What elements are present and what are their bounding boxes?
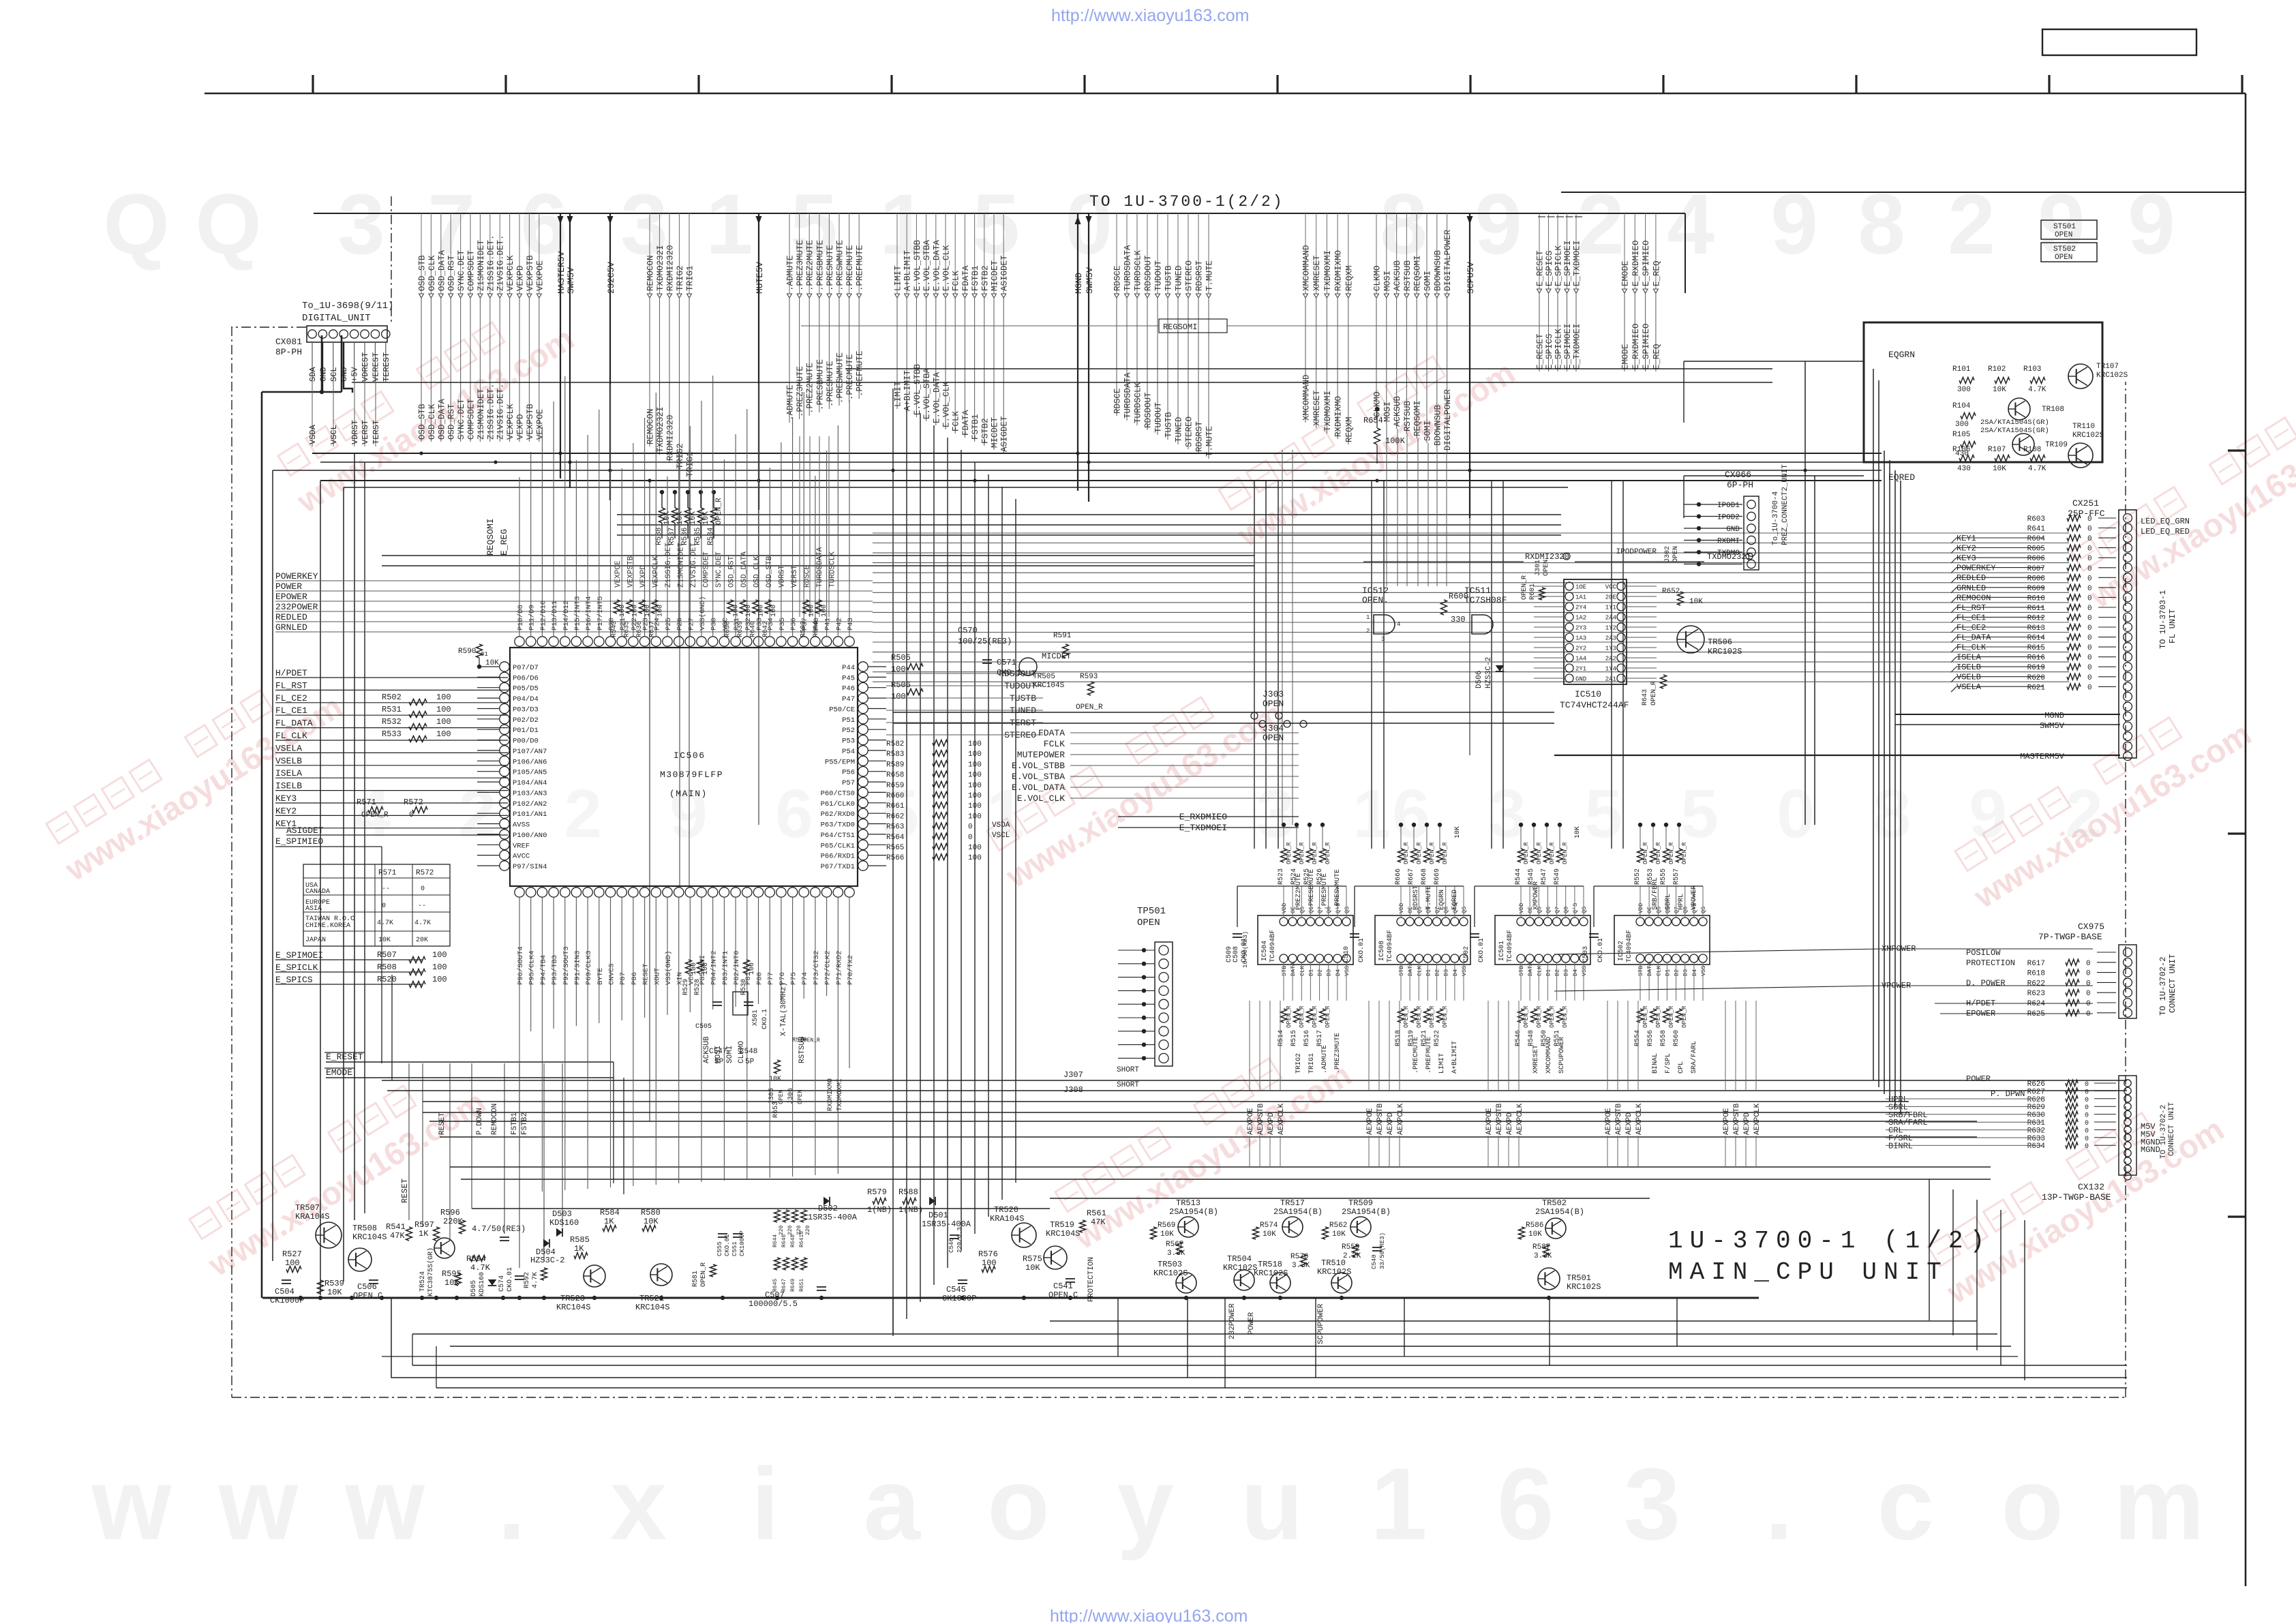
svg-text:4.7K: 4.7K	[377, 920, 393, 927]
svg-text:TR523: TR523	[560, 1294, 585, 1303]
svg-text:A+BLIMIT: A+BLIMIT	[903, 249, 913, 291]
svg-text:KRC104S: KRC104S	[635, 1303, 669, 1312]
svg-text:R614: R614	[2027, 635, 2046, 643]
svg-text:MGND: MGND	[2141, 1145, 2160, 1155]
svg-text:OPEN_R: OPEN_R	[1442, 1005, 1449, 1028]
svg-text:VSELB: VSELB	[1957, 673, 1981, 682]
svg-text:OPEN_R: OPEN_R	[1325, 842, 1331, 864]
svg-text:OPEN_R: OPEN_R	[1681, 842, 1688, 864]
svg-text:CX081: CX081	[275, 337, 302, 347]
svg-text:100: 100	[733, 605, 740, 617]
svg-text:EMODE: EMODE	[326, 1067, 352, 1078]
svg-text:Z1SMONIDET: Z1SMONIDET	[477, 388, 486, 440]
svg-text:.: .	[498, 1446, 526, 1561]
svg-text:OPEN: OPEN	[1543, 560, 1550, 576]
svg-text:AEXPCLK: AEXPCLK	[1753, 1103, 1762, 1135]
svg-text:1: 1	[1370, 1446, 1427, 1561]
svg-text:R556: R556	[1647, 1030, 1655, 1046]
svg-text:R557: R557	[1673, 868, 1680, 885]
svg-text:TUSTB: TUSTB	[1164, 265, 1174, 291]
svg-text:--: --	[382, 885, 390, 893]
svg-text:P74: P74	[801, 972, 809, 985]
svg-text:OPEN_R: OPEN_R	[1642, 1005, 1649, 1028]
svg-text:TR107: TR107	[2096, 363, 2119, 371]
svg-text:2A4: 2A4	[1605, 615, 1616, 622]
svg-text:0: 0	[2086, 1010, 2091, 1018]
svg-text:RXDMI: RXDMI	[1717, 538, 1740, 546]
svg-text:D3: D3	[1443, 969, 1450, 976]
svg-text:6P-PH: 6P-PH	[1727, 480, 1753, 490]
svg-text:OSD_RST: OSD_RST	[447, 255, 457, 291]
svg-text:VSCL: VSCL	[992, 832, 1010, 840]
svg-text:0: 0	[2087, 644, 2092, 652]
svg-text:VDD: VDD	[1398, 903, 1405, 913]
svg-text:VEXPSTB: VEXPSTB	[526, 255, 535, 291]
svg-text:VDD: VDD	[1637, 903, 1644, 913]
svg-text:X-TAL(30MHz): X-TAL(30MHz)	[780, 982, 788, 1036]
svg-text:SYNC.DET: SYNC.DET	[457, 398, 466, 440]
svg-text:.PREZ3MUTE: .PREZ3MUTE	[796, 240, 805, 291]
svg-text:KRC102S: KRC102S	[2096, 371, 2128, 380]
svg-text:C547: C547	[709, 1048, 727, 1056]
svg-text:P51: P51	[842, 716, 855, 725]
svg-text:C546: C546	[948, 1238, 955, 1253]
svg-text:JAPAN: JAPAN	[305, 937, 326, 944]
svg-text:R576: R576	[978, 1249, 998, 1259]
svg-text:RXDMIXMO: RXDMIXMO	[827, 1078, 834, 1111]
svg-text:R574: R574	[1260, 1222, 1278, 1230]
svg-text:FL_CE2: FL_CE2	[275, 693, 307, 703]
svg-text:R627: R627	[2027, 1088, 2045, 1096]
svg-text:R528: R528	[694, 979, 701, 995]
svg-text:220K: 220K	[443, 1217, 464, 1226]
svg-text:R518: R518	[1395, 1030, 1402, 1046]
svg-text:0: 0	[2085, 1089, 2089, 1096]
svg-text:POWERKEY: POWERKEY	[275, 571, 318, 581]
svg-text:VSELA: VSELA	[1957, 682, 1982, 692]
svg-text:100: 100	[691, 962, 698, 975]
svg-text:REQXM: REQXM	[1344, 416, 1354, 442]
svg-text:R550: R550	[1541, 1030, 1548, 1046]
svg-text:P86: P86	[631, 972, 639, 985]
svg-text:CKO.1: CKO.1	[761, 1009, 769, 1029]
svg-text:KEY1: KEY1	[1957, 534, 1976, 543]
svg-text:E_SPIMIEO: E_SPIMIEO	[1642, 323, 1651, 369]
svg-text:R669: R669	[1434, 868, 1441, 885]
svg-text:R632: R632	[2027, 1127, 2045, 1135]
svg-text:100: 100	[891, 665, 906, 674]
svg-text:4.7K: 4.7K	[532, 1272, 539, 1288]
svg-text:IPODPOWER: IPODPOWER	[1616, 548, 1657, 556]
svg-text:--: --	[418, 902, 426, 910]
svg-text:VEXPSTB: VEXPSTB	[627, 556, 635, 588]
svg-text:a: a	[863, 1446, 921, 1561]
svg-text:0: 0	[2086, 960, 2091, 968]
svg-text:2SA/KTA1504S(GR): 2SA/KTA1504S(GR)	[1980, 419, 2049, 427]
svg-text:OPEN: OPEN	[778, 1089, 785, 1104]
svg-text:SWM5V: SWM5V	[2040, 721, 2065, 731]
svg-text:CNVCS: CNVCS	[608, 963, 616, 985]
svg-text:VERST: VERST	[791, 565, 799, 588]
svg-text:P66/RXD1: P66/RXD1	[821, 853, 855, 861]
svg-text:1A1: 1A1	[1575, 594, 1586, 601]
svg-text:OPEN: OPEN	[2055, 231, 2072, 239]
svg-text:OPEN: OPEN	[1672, 546, 1680, 562]
svg-text:3: 3	[337, 177, 385, 272]
svg-text:R504: R504	[813, 621, 820, 637]
svg-text:EQGRN: EQGRN	[1438, 890, 1446, 910]
svg-text:IC501: IC501	[1498, 941, 1506, 961]
svg-text:OPEN_R: OPEN_R	[700, 1262, 708, 1287]
svg-text:100: 100	[968, 813, 982, 821]
svg-text:0: 0	[409, 811, 414, 819]
svg-text:TUSTB: TUSTB	[1164, 412, 1174, 438]
svg-text:C508: C508	[1233, 946, 1240, 962]
svg-text:AEXPSTB: AEXPSTB	[1257, 1103, 1265, 1135]
svg-text:0: 0	[2086, 980, 2091, 988]
svg-text:R525: R525	[1303, 868, 1311, 885]
svg-text:RDSDOUT: RDSDOUT	[1144, 392, 1153, 428]
svg-text:0: 0	[2087, 664, 2092, 672]
svg-text:CONNECT UNIT: CONNECT UNIT	[2168, 954, 2177, 1013]
svg-text:OPEN_R: OPEN_R	[1403, 1005, 1410, 1028]
svg-text:P62/RXD0: P62/RXD0	[821, 810, 855, 819]
svg-text:.PRECMUTE: .PRECMUTE	[845, 245, 855, 291]
svg-text:0: 0	[2085, 1081, 2089, 1089]
svg-text:10K: 10K	[676, 511, 684, 525]
svg-text:OPEN_R: OPEN_R	[1312, 842, 1318, 864]
svg-text:0: 0	[968, 823, 973, 832]
svg-text:RDSRST: RDSRST	[1195, 260, 1205, 291]
svg-text:TUDOUT: TUDOUT	[1154, 260, 1164, 291]
svg-text:SBRL: SBRL	[1665, 894, 1672, 910]
svg-text:GND: GND	[1575, 676, 1586, 683]
svg-text:P11/D9: P11/D9	[528, 605, 537, 631]
svg-text:D4: D4	[1572, 969, 1579, 976]
svg-text:OPEN: OPEN	[1263, 733, 1284, 743]
svg-text:QS: QS	[1700, 907, 1707, 913]
svg-text:IC506: IC506	[674, 750, 706, 761]
svg-text:FSTB2: FSTB2	[980, 265, 990, 291]
svg-text:R662: R662	[886, 813, 904, 821]
svg-text:TR518: TR518	[1258, 1260, 1282, 1269]
svg-text:P07/D7: P07/D7	[513, 664, 539, 672]
svg-text:P04/D4: P04/D4	[513, 695, 539, 703]
svg-text:OPEN.: OPEN.	[1362, 595, 1389, 605]
svg-text:FSTB1: FSTB1	[511, 1112, 519, 1135]
svg-text:J307: J307	[1063, 1070, 1083, 1080]
svg-text:4.7K: 4.7K	[414, 920, 431, 927]
svg-text:.PREFMUTE: .PREFMUTE	[856, 245, 865, 291]
svg-text:FL_RST: FL_RST	[1957, 603, 1986, 613]
svg-text:R503: R503	[800, 621, 808, 637]
svg-text:i: i	[751, 1446, 780, 1561]
svg-text:P83/INT1: P83/INT1	[721, 951, 729, 985]
svg-text:RDSRST: RDSRST	[1413, 885, 1420, 910]
svg-text:P69/CLK3: P69/CLK3	[585, 951, 593, 985]
svg-text:D1: D1	[1308, 969, 1314, 976]
svg-text:100: 100	[632, 605, 639, 617]
svg-text:1: 1	[706, 177, 753, 272]
svg-text:TR517: TR517	[1280, 1198, 1305, 1208]
svg-text:VDRST: VDRST	[779, 565, 787, 588]
svg-text:R652: R652	[1662, 588, 1680, 596]
svg-text:R636: R636	[636, 621, 644, 637]
svg-text:VEXPOE: VEXPOE	[535, 260, 545, 291]
svg-text:CKO.01: CKO.01	[1358, 938, 1365, 962]
svg-text:IC502: IC502	[1618, 941, 1625, 961]
svg-text:OPEN_R: OPEN_R	[1521, 575, 1528, 600]
svg-text:E_RXDMIEO: E_RXDMIEO	[1631, 240, 1641, 286]
svg-text:100: 100	[770, 605, 778, 617]
svg-text:0: 0	[2087, 684, 2092, 692]
svg-text:330: 330	[1451, 615, 1466, 624]
svg-text:0: 0	[421, 885, 425, 893]
svg-text:100K: 100K	[1385, 436, 1406, 446]
svg-text:R529: R529	[682, 979, 690, 995]
svg-text:TO 1U-3703-1: TO 1U-3703-1	[2158, 590, 2168, 649]
svg-text:P64/CTS1: P64/CTS1	[821, 832, 855, 840]
svg-text:ISELB: ISELB	[1957, 663, 1981, 672]
svg-text:OSD_DATA: OSD_DATA	[437, 249, 447, 291]
svg-text:E_SPICLK: E_SPICLK	[275, 962, 318, 973]
svg-text:D1: D1	[1425, 969, 1432, 976]
svg-text:R642: R642	[762, 621, 770, 637]
svg-text:MOSI: MOSI	[1383, 401, 1392, 422]
svg-text:COMPSDET: COMPSDET	[467, 398, 477, 440]
svg-text:ST501: ST501	[2053, 223, 2076, 231]
svg-text:REQSOMI: REQSOMI	[485, 518, 496, 556]
svg-text:OPEN_R: OPEN_R	[1299, 842, 1305, 864]
svg-text:C548: C548	[740, 1048, 757, 1056]
svg-text:POSILOW: POSILOW	[1966, 948, 2001, 958]
svg-text:10K: 10K	[1025, 1263, 1040, 1273]
svg-text:E_SPIMOEI: E_SPIMOEI	[1563, 240, 1573, 286]
svg-text:2Y1: 2Y1	[1575, 666, 1586, 673]
svg-text:LIMIT: LIMIT	[894, 381, 903, 407]
svg-text:R571: R571	[357, 798, 376, 807]
svg-text:P02/D2: P02/D2	[513, 716, 539, 725]
svg-text:P42: P42	[835, 618, 843, 631]
svg-text:AEXPSTB: AEXPSTB	[1615, 1103, 1623, 1135]
svg-text:P96/SOUT4: P96/SOUT4	[517, 946, 525, 985]
svg-text:P50/CE: P50/CE	[829, 706, 855, 714]
svg-text:XMRESET: XMRESET	[1312, 390, 1322, 426]
svg-text:R624: R624	[2027, 1000, 2046, 1008]
svg-text:100: 100	[436, 705, 451, 714]
svg-text:E_SPIMOEI: E_SPIMOEI	[275, 950, 323, 960]
svg-text:LIMIT: LIMIT	[894, 265, 903, 291]
svg-text:R613: R613	[2027, 624, 2045, 633]
svg-text:J301: J301	[1535, 560, 1542, 576]
svg-text:T.MUTE: T.MUTE	[1205, 426, 1215, 457]
svg-text:OPEN_R: OPEN_R	[1523, 1005, 1530, 1028]
svg-text:IC512: IC512	[1362, 586, 1389, 596]
svg-text:.PREZ3MUTE: .PREZ3MUTE	[1334, 1033, 1342, 1074]
svg-text:QS: QS	[1344, 907, 1350, 913]
svg-text:R640: R640	[750, 621, 757, 637]
svg-text:AEXPD: AEXPD	[1625, 1112, 1633, 1135]
svg-text:9: 9	[1475, 177, 1522, 272]
svg-text:MGND: MGND	[2044, 711, 2064, 721]
svg-text:OSD_DATA: OSD_DATA	[740, 551, 749, 588]
svg-text:STEREO: STEREO	[1185, 260, 1194, 291]
svg-text:.PREFMUTE: .PREFMUTE	[856, 350, 865, 397]
svg-text:220: 220	[787, 1225, 794, 1235]
svg-text:AEXPSTB: AEXPSTB	[1733, 1103, 1741, 1135]
svg-text:OPEN_R: OPEN_R	[1642, 842, 1649, 864]
svg-text:OSD_STB: OSD_STB	[418, 255, 427, 291]
svg-text:OPEN: OPEN	[797, 1089, 804, 1104]
svg-text:P01/D1: P01/D1	[513, 727, 539, 735]
svg-text:KRA104S: KRA104S	[295, 1212, 329, 1222]
svg-text:FL_DATA: FL_DATA	[1957, 633, 1991, 643]
svg-text:100: 100	[749, 962, 756, 975]
svg-text:100: 100	[436, 729, 451, 739]
svg-text:OPEN_R: OPEN_R	[1076, 703, 1103, 712]
svg-text:TR519: TR519	[1050, 1220, 1074, 1230]
svg-text:R108: R108	[2023, 446, 2041, 454]
svg-text:KRC104S: KRC104S	[1046, 1229, 1080, 1239]
svg-text:PROTECTION: PROTECTION	[1087, 1257, 1096, 1302]
svg-text:KRA104S: KRA104S	[990, 1214, 1024, 1224]
svg-text:1K: 1K	[419, 1229, 429, 1239]
svg-text:10K: 10K	[1993, 465, 2006, 473]
svg-text:w: w	[217, 1446, 298, 1561]
svg-text:2SA1954(B): 2SA1954(B)	[1535, 1207, 1584, 1217]
svg-text:2A1: 2A1	[1605, 676, 1616, 683]
svg-text:AEXPD: AEXPD	[1743, 1112, 1751, 1135]
svg-text:R548: R548	[1528, 1030, 1535, 1046]
svg-text:10K: 10K	[1574, 826, 1582, 838]
svg-text:R596: R596	[440, 1208, 460, 1217]
svg-text:P52: P52	[842, 727, 855, 735]
svg-text:R646: R646	[781, 1234, 787, 1247]
svg-text:TURDSDATA: TURDSDATA	[816, 547, 824, 588]
svg-text:T.MUTE: T.MUTE	[1205, 260, 1215, 291]
svg-text:REQSOMI: REQSOMI	[1413, 255, 1423, 291]
svg-text:IPOD2: IPOD2	[1717, 514, 1740, 522]
svg-text:10K: 10K	[1454, 826, 1462, 838]
svg-text:P106/AN6: P106/AN6	[513, 758, 547, 766]
svg-text:ST502: ST502	[2053, 245, 2076, 254]
svg-text:1Y1: 1Y1	[1605, 605, 1616, 611]
svg-text:C574: C574	[498, 1275, 506, 1292]
svg-text:10/50(RE3): 10/50(RE3)	[1242, 931, 1249, 968]
svg-text:FSTB1: FSTB1	[971, 414, 980, 440]
svg-text:AEXPCLK: AEXPCLK	[1635, 1103, 1644, 1135]
svg-text:P14/D12: P14/D12	[562, 601, 571, 631]
svg-text:EPOWER: EPOWER	[275, 592, 307, 602]
svg-text:TR109: TR109	[2045, 441, 2068, 449]
svg-text:P92/SOUT3: P92/SOUT3	[562, 946, 571, 985]
svg-text:E_TXDMOEI: E_TXDMOEI	[1573, 323, 1582, 369]
svg-text:STEREO: STEREO	[1185, 416, 1194, 447]
svg-text:OPEN_R: OPEN_R	[1299, 1005, 1305, 1028]
svg-text:R530: R530	[740, 979, 748, 995]
svg-text:2OE: 2OE	[1605, 594, 1616, 601]
svg-text:VREF: VREF	[513, 842, 530, 850]
svg-text:EQGRN: EQGRN	[1888, 350, 1915, 360]
svg-text:E_SPICS: E_SPICS	[1545, 250, 1554, 286]
svg-text:MASTERM5V: MASTERM5V	[2020, 752, 2065, 761]
svg-text:E_SPICS: E_SPICS	[275, 975, 313, 985]
svg-text:P102/AN2: P102/AN2	[513, 800, 547, 808]
svg-text:300: 300	[1955, 421, 1969, 429]
svg-text:R584: R584	[600, 1208, 620, 1217]
svg-text:OPEN_R: OPEN_R	[1416, 842, 1423, 864]
svg-text:R590: R590	[458, 648, 476, 656]
svg-text:VDREST: VDREST	[361, 352, 370, 382]
svg-text:AEXPCLK: AEXPCLK	[1278, 1103, 1286, 1135]
svg-text:2Y3: 2Y3	[1575, 625, 1586, 632]
svg-text:R643: R643	[1642, 689, 1649, 706]
svg-text:Z1VSIG.DET.: Z1VSIG.DET.	[496, 234, 506, 291]
svg-text:R107: R107	[1988, 446, 2006, 454]
svg-text:2: 2	[1366, 628, 1370, 635]
svg-text:P15/INT3: P15/INT3	[573, 596, 581, 631]
svg-text:R582: R582	[886, 740, 904, 748]
svg-text:P47: P47	[842, 695, 855, 703]
svg-text:R600: R600	[1449, 592, 1468, 601]
svg-text:P57: P57	[842, 779, 855, 787]
svg-text:TO 1U-3702-2: TO 1U-3702-2	[2158, 957, 2168, 1016]
svg-text:2: 2	[458, 776, 496, 852]
svg-text:C507: C507	[765, 1290, 785, 1300]
svg-text:R603: R603	[2027, 515, 2045, 524]
svg-text:3: 3	[1624, 1446, 1680, 1561]
svg-text:1K: 1K	[604, 1217, 614, 1226]
svg-text:VDRST: VDRST	[350, 420, 360, 444]
svg-text:FDATA: FDATA	[1038, 728, 1065, 738]
svg-text:y: y	[1117, 1446, 1173, 1561]
svg-text:OSD_CLK: OSD_CLK	[427, 255, 437, 291]
svg-text:R581: R581	[692, 1271, 699, 1287]
svg-text:CLK: CLK	[1536, 965, 1543, 976]
svg-text:.: .	[1765, 1446, 1794, 1561]
svg-text:OPEN_R: OPEN_R	[1681, 1005, 1688, 1028]
svg-text:OPEN_R: OPEN_R	[1429, 1005, 1436, 1028]
svg-text:Z1SSIG.DET.: Z1SSIG.DET.	[486, 234, 496, 291]
svg-text:P36: P36	[790, 618, 798, 631]
svg-text:OSD_RST: OSD_RST	[728, 556, 736, 588]
svg-text:TC4094BF: TC4094BF	[1387, 930, 1394, 962]
svg-text:P27: P27	[687, 618, 695, 631]
svg-text:P54: P54	[842, 748, 855, 756]
svg-text:TR513: TR513	[1176, 1198, 1200, 1208]
svg-text:100: 100	[657, 605, 665, 617]
svg-text:DATA: DATA	[1407, 962, 1414, 976]
svg-text:5: 5	[1680, 776, 1719, 852]
svg-text:C505: C505	[695, 1023, 712, 1031]
svg-text:100: 100	[968, 792, 982, 800]
svg-text:R621: R621	[2027, 684, 2046, 692]
svg-text:AEXPOE: AEXPOE	[1723, 1108, 1731, 1135]
svg-text:P45: P45	[842, 674, 855, 682]
svg-text:R607: R607	[2027, 565, 2045, 573]
svg-text:0: 0	[2085, 1104, 2089, 1112]
svg-text:RXDMI2320: RXDMI2320	[666, 245, 676, 291]
svg-text:R502: R502	[382, 693, 402, 702]
svg-text:Q8: Q8	[1563, 907, 1570, 913]
svg-text:0: 0	[2087, 654, 2092, 663]
svg-text:RESET: RESET	[400, 1179, 410, 1203]
svg-text:P107/AN7: P107/AN7	[513, 748, 547, 756]
svg-text:RESET: RESET	[642, 963, 650, 985]
svg-text:Z1SSIG.DET.: Z1SSIG.DET.	[486, 383, 496, 440]
svg-text:CX251: CX251	[2072, 498, 2099, 509]
svg-text:47K: 47K	[390, 1231, 405, 1241]
